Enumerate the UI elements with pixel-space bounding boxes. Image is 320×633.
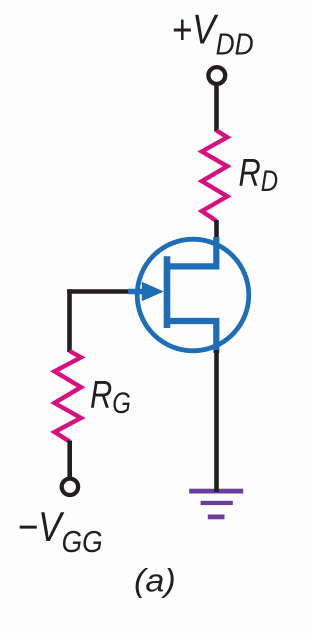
node +VDD label (172, 7, 254, 62)
svg-text:RD: RD (239, 151, 279, 198)
label RD (239, 151, 279, 198)
terminal -VGG (62, 479, 78, 495)
svg-text:RG: RG (90, 373, 131, 420)
svg-text:−VGG: −VGG (18, 504, 103, 559)
transistor source arm (165, 321, 217, 353)
transistor drain arm (165, 237, 217, 266)
transistor JFET envelope circle (137, 239, 249, 351)
transistor channel bar (164, 256, 171, 328)
wire gate vertical (67, 289, 72, 352)
wire drain top (214, 86, 219, 132)
node -VGG label (18, 504, 103, 559)
resistor RD (202, 131, 228, 222)
transistor gate arrow (128, 289, 146, 294)
resistor RG (55, 351, 82, 442)
label RG (90, 373, 131, 420)
wire RG to terminal (67, 441, 72, 478)
caption (a) (134, 563, 176, 599)
terminal +VDD (208, 67, 225, 84)
svg-text:(a): (a) (134, 563, 176, 599)
wire gate horizontal (70, 292, 135, 294)
ground (189, 489, 243, 520)
wire source to ground (214, 350, 219, 492)
wire zigzag to JFET (214, 220, 219, 240)
svg-text:+VDD: +VDD (172, 7, 254, 62)
